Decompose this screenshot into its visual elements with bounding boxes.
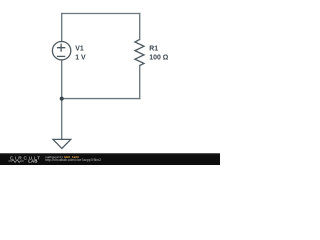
ground bbox=[53, 139, 71, 148]
wire R1 top lead bbox=[139, 14, 141, 40]
svg-text:100 Ω: 100 Ω bbox=[149, 54, 168, 61]
wire ground stem bbox=[61, 99, 63, 140]
watermark text line 2 bbox=[45, 159, 101, 163]
svg-text:V1: V1 bbox=[75, 46, 84, 53]
voltage source V1 bbox=[52, 42, 70, 60]
resistor R1 bbox=[135, 39, 144, 65]
wire R1 bottom lead bbox=[139, 66, 141, 99]
watermark text line 1 bbox=[45, 156, 79, 159]
label R1 value bbox=[149, 46, 168, 62]
svg-text:R1: R1 bbox=[149, 46, 158, 53]
watermark bar bbox=[0, 153, 220, 165]
node junction at bottom-left bbox=[60, 97, 64, 101]
svg-text:1 V: 1 V bbox=[75, 54, 86, 61]
CircuitLab logo bbox=[0, 153, 44, 165]
label V1 value bbox=[75, 46, 86, 62]
wire bottom rail bbox=[62, 98, 140, 100]
wire V1 top lead bbox=[61, 14, 63, 42]
wire top rail bbox=[62, 13, 140, 15]
svg-text:LAB: LAB bbox=[28, 158, 37, 163]
wire V1 bottom lead bbox=[61, 60, 63, 99]
